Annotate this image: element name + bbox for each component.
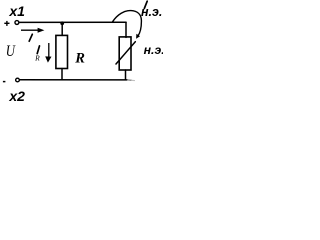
svg-text:н.э.: н.э. (144, 43, 163, 57)
curved arrow I n.e. (113, 11, 142, 39)
plus sign (4, 21, 9, 26)
svg-text:U: U (6, 43, 16, 60)
label I of I n.e. (top right), hand-italic stroke (144, 1, 147, 8)
wire right branch down to nonlinear element (125, 22, 127, 37)
svg-text:R: R (34, 53, 40, 62)
wire bottom rail (20, 79, 128, 81)
current arrow IR downward (45, 43, 51, 63)
current arrow I on top wire (21, 28, 44, 33)
minus sign (3, 81, 6, 83)
wire nonlinear element bottom (125, 70, 127, 80)
terminal x1 circle (15, 21, 19, 25)
wire resistor branch top (61, 22, 63, 35)
label I (top arrow current), hand-italic stroke (29, 34, 32, 41)
terminal x2 circle (16, 78, 20, 82)
wire resistor branch bottom (61, 69, 63, 80)
label I of I R (resistor current), hand-italic stroke (37, 46, 39, 54)
resistor R body (56, 35, 68, 68)
nonlinear element body (119, 37, 131, 70)
wire top rail (19, 21, 126, 23)
svg-text:R: R (74, 51, 85, 67)
svg-text:x1: x1 (8, 3, 25, 19)
svg-text:x2: x2 (8, 88, 25, 104)
svg-text:н.э.: н.э. (141, 5, 162, 19)
node junction dot top of resistor branch (60, 21, 64, 25)
nonlinear element diagonal stroke (116, 42, 135, 64)
wire bottom rail faded tail (128, 79, 132, 81)
